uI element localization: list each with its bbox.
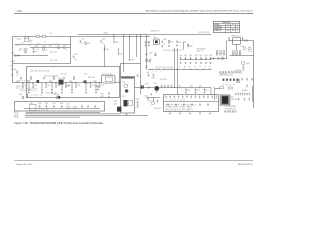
svg-text:Schematics, Component Location: Schematics, Component Location Diagrams,… — [146, 10, 253, 13]
svg-text:C401: C401 — [18, 39, 22, 41]
svg-text:L407: L407 — [69, 80, 72, 82]
svg-text:C410: C410 — [131, 59, 135, 61]
wire corner x183 — [184, 42, 187, 50]
svg-text:Q400: Q400 — [154, 83, 158, 85]
inductor lower rail 0 — [150, 68, 153, 71]
inductor lower rail 9 — [208, 68, 211, 71]
inductor lower rail 7 — [195, 68, 198, 71]
capacitor C446b — [146, 72, 149, 77]
wire drop pair x177 — [177, 48, 179, 95]
svg-text:C406: C406 — [74, 54, 78, 56]
resistor R403 inline — [43, 36, 46, 38]
wire varactor rail — [180, 59, 211, 61]
svg-text:C415: C415 — [178, 42, 182, 44]
capacitor ladder top 4 — [182, 95, 184, 98]
svg-text:R404: R404 — [43, 46, 47, 48]
capacitor C459 — [154, 99, 161, 109]
svg-text:Figure 7-36. HUD4022A/HUD4025: Figure 7-36. HUD4022A/HUD4025B (UHF R1) … — [15, 121, 104, 125]
RF enclosure box — [27, 67, 120, 98]
capacitor C435 — [75, 83, 80, 88]
svg-text:C407: C407 — [81, 39, 85, 41]
ground Q400 — [150, 93, 152, 95]
svg-text:C416: C416 — [106, 49, 110, 51]
svg-text:Q410: Q410 — [55, 44, 59, 46]
capacitor C410 — [129, 58, 134, 61]
label under line — [65, 86, 71, 88]
wire drop x123 — [123, 35, 125, 73]
capacitor C439 below crystal — [94, 85, 99, 91]
node rail junction B — [27, 35, 30, 38]
svg-text:0.1: 0.1 — [81, 44, 83, 46]
svg-text:C481: C481 — [45, 103, 48, 105]
capacitor ladder top 11 — [211, 95, 213, 98]
ground ladder box 5 — [209, 112, 211, 114]
label main line nets — [44, 76, 58, 78]
capacitor control 6 — [87, 105, 89, 108]
diode D405 dark — [59, 96, 61, 99]
svg-text:HUD4025B: HUD4025B — [214, 28, 221, 30]
svg-text:L400: L400 — [21, 42, 24, 44]
wire 5V rail B — [78, 34, 211, 36]
capacitor ladder top 8 — [199, 95, 201, 98]
footer part number — [238, 164, 253, 166]
wire control line — [24, 108, 100, 110]
testpoint grid right — [232, 51, 241, 55]
capacitor C448b — [145, 84, 149, 90]
wire drop x129 — [129, 35, 131, 59]
capacitor C413 — [148, 41, 150, 47]
ground Q404 — [242, 67, 244, 69]
wire vertical x104 — [104, 45, 106, 67]
svg-text:C425: C425 — [204, 55, 207, 57]
capacitor R419b — [152, 74, 155, 80]
svg-text:LO_INJ TEST_PT RSSI: LO_INJ TEST_PT RSSI GND — [166, 111, 189, 113]
svg-text:C421: C421 — [184, 55, 187, 57]
svg-text:C433: C433 — [57, 85, 60, 87]
svg-text:C482: C482 — [53, 103, 56, 105]
label values row1 — [19, 80, 31, 82]
capacitor control 3 — [53, 103, 56, 108]
svg-text:100: 100 — [45, 49, 48, 51]
svg-text:SH401: SH401 — [104, 32, 109, 34]
capacitor C466 — [246, 84, 248, 87]
svg-text:RX IN: RX IN — [11, 61, 15, 63]
svg-text:1: 1 — [237, 28, 238, 30]
svg-text:6p: 6p — [199, 66, 201, 68]
wire right box edge — [215, 87, 221, 100]
node IF line junction — [173, 86, 176, 89]
capacitor C432 — [45, 83, 50, 88]
resistor R409 — [222, 57, 223, 61]
label speck i — [60, 74, 67, 76]
capacitor C415 — [176, 40, 182, 46]
node rail end label — [198, 32, 209, 34]
svg-text:CNTL 5V: CNTL 5V — [197, 50, 204, 52]
wire ladder mid rail — [164, 101, 219, 103]
bus line 2 — [25, 113, 120, 115]
svg-text:C451: C451 — [114, 103, 118, 105]
svg-text:44.85MHz: 44.85MHz — [242, 90, 248, 92]
label speck f — [44, 42, 46, 44]
wire top of IF box — [121, 64, 141, 77]
ground Q401 — [25, 52, 27, 54]
svg-text:R408: R408 — [189, 45, 193, 47]
svg-text:U401: U401 — [153, 37, 157, 39]
svg-text:Q404: Q404 — [246, 63, 250, 65]
svg-text:RF: RF — [232, 30, 234, 32]
svg-text:CRYSTAL FILTER: CRYSTAL FILTER — [102, 73, 113, 76]
resistor chain x146 b — [146, 59, 151, 63]
svg-text:C1 C3 C5 C7 C9 C11: C1 C3 C5 C7 C9 C11 C13 — [166, 100, 185, 102]
transistor Q400 — [154, 83, 160, 93]
wire vertical x70 — [70, 37, 72, 64]
IF ladder filter box — [164, 95, 219, 112]
label value 56K — [29, 42, 31, 44]
svg-text:C409: C409 — [115, 42, 119, 44]
node rail junction D — [122, 33, 125, 36]
wire IF line — [135, 87, 212, 89]
svg-text:C431: C431 — [34, 85, 37, 87]
capacitor control 4 — [60, 103, 63, 108]
svg-text:C436: C436 — [84, 74, 87, 76]
capacitor C423 group — [194, 55, 197, 68]
transistor Q410 — [55, 44, 60, 49]
transistor Q406 dark — [123, 100, 127, 106]
inductor L408 — [93, 80, 96, 82]
node rail junction C — [112, 33, 115, 36]
svg-text:RF: RF — [227, 30, 229, 32]
transistor Q407 — [66, 103, 69, 109]
svg-text:C441 L407 C442 R410: C441 L407 C442 R410 — [44, 76, 58, 78]
transistor Q405 — [84, 80, 87, 83]
capacitor C433 — [55, 83, 60, 88]
bus line 3 — [25, 115, 148, 117]
svg-text:R441: R441 — [54, 94, 58, 96]
capacitor C406 — [73, 54, 78, 61]
svg-text:C429: C429 — [147, 42, 151, 44]
center IF box header bar — [121, 77, 134, 78]
capacitor ladder bottom 5 — [207, 103, 209, 106]
svg-text:J402: J402 — [11, 75, 14, 77]
header rule — [14, 13, 253, 15]
capacitor C440b — [43, 77, 45, 80]
svg-text:1K: 1K — [44, 42, 46, 44]
node dots row — [222, 83, 233, 86]
capacitor C407 group — [80, 39, 85, 46]
capacitor C420 group — [179, 55, 182, 68]
capacitor below-line 4 — [71, 83, 73, 94]
inductor L407 — [69, 80, 72, 82]
svg-text:C426: C426 — [209, 55, 212, 57]
label below lower rail — [152, 71, 162, 73]
bus labels — [14, 112, 19, 119]
capacitor ladder bottom 2 — [183, 103, 185, 106]
wire stub x27 to bottom — [26, 94, 29, 98]
ground center box — [126, 113, 128, 115]
label enclosure row2 — [20, 90, 36, 92]
wire left edge antenna feed — [12, 37, 14, 83]
svg-text:C402: C402 — [34, 46, 38, 48]
label ladder row — [166, 100, 185, 102]
capacitor C416 — [104, 48, 109, 52]
svg-text:2: 2 — [237, 30, 238, 32]
svg-text:4p: 4p — [189, 66, 191, 68]
varactor D402 — [149, 52, 157, 56]
capacitor ladder top 5 — [186, 95, 188, 98]
wire stub left ladder — [146, 98, 160, 102]
capacitor below-line 1 — [41, 83, 43, 94]
svg-text:U406: U406 — [114, 101, 118, 103]
svg-text:2p 5p 2p 5p: 2p 5p 2p 5p — [152, 71, 162, 73]
wire drop x140 long — [140, 35, 142, 95]
capacitor C434 — [65, 83, 70, 88]
wire y58 segment — [210, 57, 227, 60]
label control values — [38, 109, 48, 111]
svg-text:Q402: Q402 — [241, 46, 245, 48]
node rail junction A — [24, 35, 27, 38]
svg-text:L402: L402 — [43, 34, 46, 36]
svg-text:33p: 33p — [74, 59, 77, 61]
svg-text:2p2: 2p2 — [37, 49, 39, 51]
label SH401 — [104, 32, 109, 34]
ground ladder box 2 — [179, 112, 181, 114]
svg-text:C430: C430 — [24, 85, 27, 87]
capacitor C409 — [113, 35, 118, 44]
svg-text:SHIELD NO. 9: SHIELD NO. 9 — [151, 31, 161, 33]
control enclosure box — [15, 102, 105, 112]
svg-text:VERSIONS: VERSIONS — [222, 22, 230, 24]
capacitor C419 — [213, 57, 215, 60]
wire drop pair x174 — [174, 48, 176, 88]
svg-text:0.1: 0.1 — [19, 50, 21, 52]
capacitor C440a — [20, 77, 22, 80]
svg-text:0.1: 0.1 — [163, 44, 165, 46]
svg-text:1p 4p: 1p 4p — [85, 83, 89, 85]
label L401 — [37, 34, 46, 36]
node rail junction E — [139, 33, 142, 36]
wire x146 lower — [146, 57, 148, 70]
svg-text:L411 C427 L412 C428 L413: L411 C427 L412 C428 L413 — [155, 67, 173, 69]
component T401 — [148, 59, 151, 63]
inductor lower rail 5 — [182, 68, 185, 71]
resistor R440 crossing — [19, 94, 23, 99]
capacitor small row right — [235, 93, 250, 96]
label speck j — [84, 74, 87, 76]
svg-text:Q412: Q412 — [148, 100, 152, 102]
svg-text:7p: 7p — [204, 66, 206, 68]
svg-text:X: X — [228, 26, 229, 28]
capacitor C408 group — [100, 38, 105, 45]
svg-text:T400: T400 — [231, 97, 234, 99]
svg-text:C447 L410: C447 L410 — [16, 86, 23, 88]
svg-text:1u: 1u — [66, 50, 68, 52]
inductor lower rail 2 — [163, 68, 166, 71]
net name list — [166, 103, 197, 113]
label pad row — [219, 70, 245, 77]
shield box — [233, 38, 241, 45]
capacitor C457 — [204, 88, 209, 93]
capacitor C470 — [238, 98, 240, 101]
svg-text:August 31, 2007: August 31, 2007 — [17, 163, 34, 166]
label speck e — [37, 43, 40, 45]
resistor R405 — [85, 41, 90, 45]
capacitor ladder top 9 — [203, 95, 205, 98]
inductor L403 — [16, 80, 19, 82]
capacitor right col a — [241, 78, 243, 81]
label mid sparse — [50, 52, 57, 63]
capacitor C430 — [22, 83, 27, 88]
inductor lower rail 4 — [176, 68, 179, 71]
capacitor ladder bottom 1 — [175, 103, 177, 106]
svg-text:C480: C480 — [38, 103, 41, 105]
svg-text:C414: C414 — [163, 39, 167, 41]
svg-text:C444 L409 C445 R412 C446: C444 L409 C445 R412 C446 — [30, 70, 50, 72]
label lower rail — [155, 67, 173, 69]
wire bias line upper — [15, 44, 71, 46]
resistor R413a — [30, 76, 31, 80]
svg-text:C452: C452 — [136, 107, 139, 109]
label enclosure row3 — [46, 93, 57, 95]
svg-text:R407: R407 — [170, 42, 174, 44]
svg-text:Q407: Q407 — [66, 103, 69, 105]
svg-text:R405: R405 — [49, 45, 52, 47]
inductor L404 — [26, 80, 29, 82]
svg-text:L402: L402 — [49, 33, 52, 35]
resistor R421 — [228, 87, 232, 89]
svg-text:C449: C449 — [100, 94, 104, 96]
capacitor below-line 2 — [51, 83, 53, 94]
svg-text:C433 L406: C433 L406 — [60, 74, 67, 76]
svg-text:C424: C424 — [199, 55, 202, 57]
figure caption — [15, 121, 104, 125]
capacitor right col c — [251, 78, 253, 81]
resistor R408 — [187, 44, 192, 48]
mixer X box — [237, 80, 240, 83]
mixer core U402 — [125, 89, 128, 92]
svg-text:6816532H01-B: 6816532H01-B — [238, 164, 253, 166]
svg-text:C: C — [237, 24, 238, 26]
wire varactor lower rail — [148, 69, 211, 71]
label RX IF rows — [225, 99, 238, 110]
svg-text:1-36: 1-36 — [17, 10, 23, 13]
label Q400 bias — [160, 79, 167, 81]
svg-text:C460 C461 C462: C460 C461 C462 — [235, 70, 246, 72]
transistor Q409 dark — [117, 107, 121, 112]
capacitor control 5 — [81, 105, 83, 108]
svg-text:R405: R405 — [87, 43, 91, 45]
inductor tick L415 — [190, 87, 192, 89]
wire vertical x252 — [252, 86, 254, 102]
svg-text:L405: L405 — [49, 80, 52, 82]
capacitor C422 group — [189, 55, 192, 68]
capacitor C451 — [164, 85, 166, 88]
label under line row4 — [20, 88, 37, 90]
svg-text:RX_IF 44.85MHz: RX_IF 44.85MHz — [225, 106, 236, 108]
label speck h — [49, 45, 52, 47]
svg-text:56K: 56K — [29, 42, 31, 44]
label speck a — [16, 38, 18, 40]
svg-text:8p: 8p — [209, 66, 211, 68]
wire connector line — [14, 55, 49, 57]
capacitor ladder top 1 — [169, 95, 171, 98]
label left edge 2 — [11, 64, 14, 67]
svg-text:C408: C408 — [102, 38, 106, 40]
label left net 2 — [11, 75, 14, 77]
svg-text:C446: C446 — [146, 72, 149, 74]
capacitor C455 — [185, 88, 190, 93]
inductor lower rail 3 — [169, 68, 172, 71]
capacitor control 7 — [94, 105, 96, 108]
label RX IN — [11, 61, 15, 63]
svg-text:B: B — [233, 24, 234, 26]
ground ladder box 1 — [169, 112, 171, 114]
svg-text:C435: C435 — [77, 85, 80, 87]
wire x146 upper — [146, 35, 148, 58]
wire 5V rail A — [13, 36, 151, 38]
svg-text:R406 C422: R406 C422 — [50, 52, 57, 54]
wire drop x25 — [24, 37, 26, 39]
label left edge 3 — [11, 69, 14, 71]
page number — [17, 10, 23, 13]
svg-text:0.1: 0.1 — [102, 43, 104, 45]
svg-text:R430 R431: R430 R431 — [231, 99, 238, 101]
svg-text:FL401: FL401 — [58, 78, 62, 80]
svg-text:3p: 3p — [184, 66, 186, 68]
svg-text:C438: C438 — [100, 85, 103, 87]
capacitor C458 — [144, 96, 148, 101]
resistor R407 — [168, 40, 174, 47]
node bus junction 3 — [139, 87, 142, 90]
capacitor control 1 — [38, 103, 41, 108]
diode D404 — [143, 85, 144, 88]
svg-text:Y401: Y401 — [13, 69, 16, 71]
svg-text:RX_IF_OUT RAW_5V SYN_LOCK: RX_IF_OUT RAW_5V SYN_LOCK CNTL_5V — [166, 103, 197, 106]
transistor Q411 — [63, 46, 68, 52]
svg-text:L418 C459: L418 C459 — [154, 108, 161, 110]
svg-text:L408: L408 — [93, 80, 96, 82]
svg-text:R419: R419 — [152, 77, 155, 79]
label L402b — [49, 33, 52, 35]
capacitor C438 — [99, 83, 104, 88]
label front end text — [197, 48, 207, 52]
svg-text:50 OHM: 50 OHM — [65, 86, 71, 88]
capacitor C456 — [195, 88, 200, 93]
resistor R401 — [24, 39, 32, 42]
capacitor C417 — [118, 48, 123, 55]
resistor R413c — [73, 76, 74, 80]
wire shield box stub — [236, 45, 238, 51]
connector J401 — [11, 53, 20, 57]
label speck g — [37, 49, 39, 51]
inductor lower rail 6 — [189, 68, 192, 71]
resistor R420 — [220, 87, 224, 89]
capacitor control 2 — [45, 103, 48, 108]
capacitor C453 — [171, 85, 173, 88]
resistor R404 group — [43, 46, 48, 52]
svg-text:C420: C420 — [179, 55, 182, 57]
wire drop x28 — [28, 37, 30, 39]
svg-text:ANT: ANT — [11, 64, 14, 67]
capacitor below-line 3 — [61, 83, 63, 94]
footer rule — [14, 160, 253, 162]
svg-text:R440: R440 — [19, 94, 23, 96]
label center box — [122, 81, 125, 97]
inductor tick L416 — [199, 87, 201, 89]
label shield no9 — [151, 31, 161, 33]
label values row2 — [85, 83, 89, 85]
svg-text:C456: C456 — [196, 90, 199, 92]
label speck d — [30, 44, 32, 46]
